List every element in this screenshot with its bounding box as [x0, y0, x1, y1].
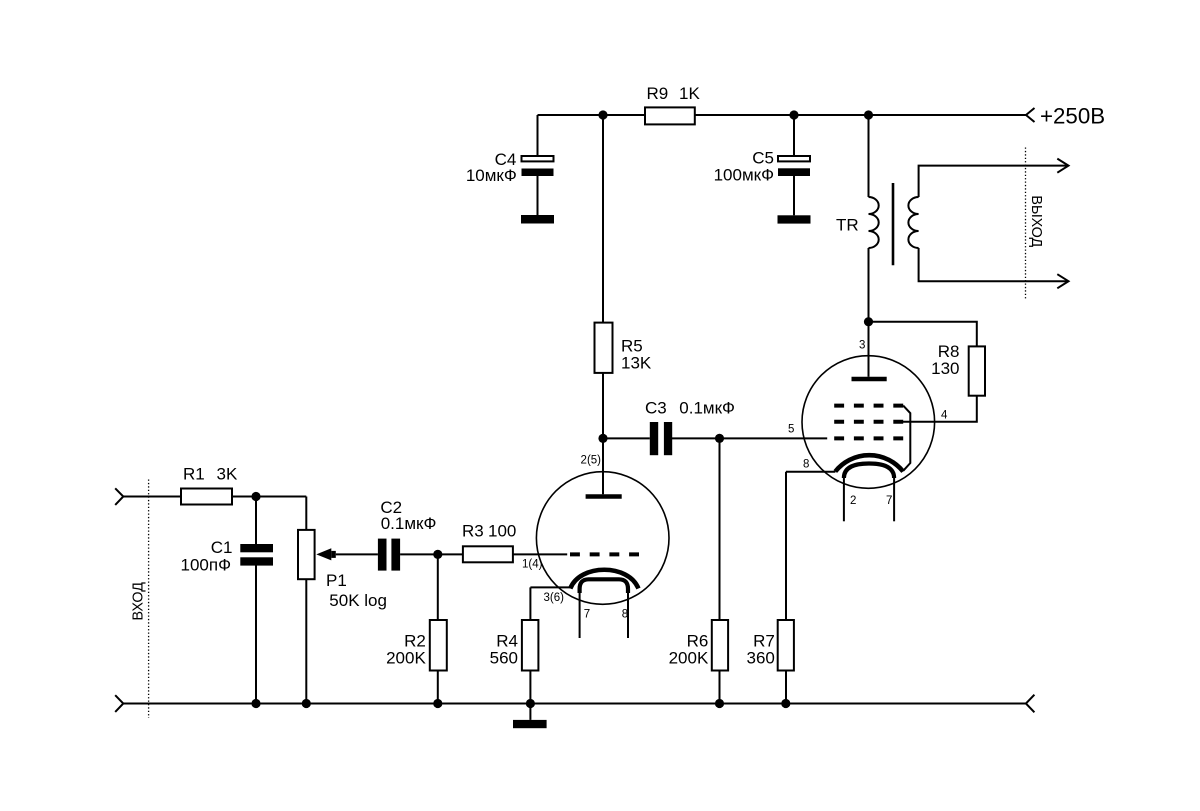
- node junction R1 / C1: [251, 492, 260, 501]
- svg-text:2: 2: [850, 495, 856, 507]
- node junction rail / C1: [251, 699, 260, 708]
- transformer TR core: [892, 183, 895, 265]
- wire beam plate connection: [903, 406, 910, 471]
- node input arrow top: [115, 488, 123, 505]
- resistor R1 label: [183, 465, 238, 484]
- tube U2 grid g1 row: [834, 436, 903, 440]
- resistor R7: [778, 620, 794, 671]
- node junction R5 / C3 / tube U1 anode: [598, 434, 607, 443]
- resistor R8 label: [931, 342, 959, 378]
- svg-text:50K log: 50K log: [329, 591, 387, 610]
- node junction rail / P1: [302, 699, 311, 708]
- wire TR primary top lead: [868, 115, 870, 197]
- resistor R5: [595, 323, 613, 373]
- node junction rail / R6: [715, 699, 724, 708]
- resistor R5 label: [621, 337, 652, 373]
- svg-text:R1: R1: [183, 465, 205, 484]
- resistor R7 label: [747, 632, 775, 668]
- capacitor C5: [778, 156, 810, 176]
- svg-text:8: 8: [622, 609, 628, 621]
- svg-text:360: 360: [747, 648, 775, 667]
- tube U1 cathode: [570, 570, 638, 589]
- tube U2 heater: [844, 464, 894, 479]
- svg-text:0.1мкФ: 0.1мкФ: [381, 514, 437, 533]
- node junction C2 / R2 / R3: [433, 550, 442, 559]
- svg-text:100: 100: [488, 522, 516, 541]
- resistor R9 label: [647, 84, 701, 103]
- svg-text:100пФ: 100пФ: [181, 555, 232, 574]
- wire bottom rail: [123, 703, 1026, 705]
- node junction rail / R4 / ground: [526, 699, 535, 708]
- resistor R4 label: [490, 632, 518, 668]
- resistor R8: [969, 346, 985, 395]
- svg-text:7: 7: [584, 609, 590, 621]
- wire C5 bottom lead: [793, 176, 795, 215]
- node output boundary dotted line: [1025, 148, 1027, 300]
- wire cathode pin 8 lead: [786, 471, 835, 473]
- wire heater pin 2 stub: [843, 476, 845, 522]
- capacitor C1: [240, 544, 273, 566]
- capacitor C2 label: [380, 498, 436, 533]
- wire heater pin 7 stub: [579, 591, 581, 638]
- wire heater pin 8 stub: [627, 591, 629, 638]
- tube U2 grid g2 row: [834, 420, 903, 424]
- node junction top rail / R5: [598, 110, 607, 119]
- wire C4 bottom lead: [537, 176, 539, 215]
- wire cathode U1 to R4: [529, 587, 531, 703]
- tube U2 envelope: [802, 356, 935, 489]
- tube U1 envelope: [536, 472, 669, 605]
- svg-text:+250В: +250В: [1040, 103, 1105, 128]
- node +250V terminal arrow: [1026, 108, 1035, 122]
- wire C4 top lead: [537, 115, 539, 156]
- ground chassis bar under C5: [778, 215, 811, 223]
- wire secondary top output: [919, 166, 1069, 197]
- node input boundary dotted line: [148, 480, 150, 719]
- resistor R1: [181, 489, 232, 505]
- tube U1 grid row: [570, 552, 639, 556]
- tube U2 cathode: [835, 455, 903, 471]
- capacitor C4 label: [466, 150, 517, 185]
- node junction top rail / TR primary: [864, 110, 873, 119]
- capacitor C5 label: [714, 148, 774, 184]
- resistor R2 label: [386, 632, 426, 668]
- wire wiper to C2: [336, 553, 378, 555]
- potentiometer P1 label: [326, 571, 387, 610]
- potentiometer P1 wiper arrow: [316, 548, 336, 560]
- node output arrow bottom: [1057, 274, 1068, 288]
- node junction rail / R2: [433, 699, 442, 708]
- ground chassis bar under C4: [521, 215, 554, 224]
- capacitor C1 label: [181, 538, 233, 574]
- svg-text:130: 130: [931, 359, 959, 378]
- svg-text:100мкФ: 100мкФ: [714, 165, 774, 184]
- tube U1 anode plate: [586, 494, 622, 499]
- wire secondary bottom output: [919, 248, 1069, 281]
- wire grid pin 5 lead: [720, 437, 828, 439]
- wire R7 branch: [785, 472, 787, 704]
- wire top supply rail: [538, 114, 1027, 116]
- svg-text:TR: TR: [836, 216, 859, 235]
- node junction C3 / R6 / pin5: [715, 434, 724, 443]
- wire C3 to node: [672, 437, 720, 439]
- wire grid pin 1(4) lead: [513, 553, 567, 555]
- transformer TR primary winding: [869, 197, 879, 248]
- tube U2 anode plate: [852, 377, 887, 382]
- resistor R3 label: [462, 522, 516, 541]
- wire R6 branch: [719, 438, 721, 703]
- ground symbol: [513, 704, 547, 729]
- capacitor C3 label: [645, 399, 735, 418]
- resistor R3: [463, 546, 513, 562]
- wire C1 bottom lead: [255, 565, 257, 703]
- wire tube U2 anode lead: [868, 322, 870, 377]
- wire R8 bottom lead to pin 4: [903, 396, 977, 422]
- potentiometer P1: [298, 530, 315, 579]
- svg-text:C3: C3: [645, 399, 667, 418]
- svg-text:P1: P1: [326, 571, 347, 590]
- tube U2 grid g3 row: [834, 404, 903, 408]
- svg-text:8: 8: [803, 459, 809, 471]
- svg-text:3: 3: [859, 339, 865, 351]
- resistor R9: [645, 107, 695, 124]
- capacitor C2: [378, 539, 400, 571]
- wire C2 to R3: [400, 553, 463, 555]
- wire anode U1 to C3: [603, 437, 650, 439]
- node junction rail / R7: [781, 699, 790, 708]
- node output arrow top: [1057, 159, 1068, 173]
- svg-text:7: 7: [886, 495, 892, 507]
- resistor R2: [430, 620, 447, 671]
- capacitor C4: [522, 156, 554, 176]
- tube U1 heater: [580, 579, 628, 593]
- wire cathode pin 3(6) lead: [530, 586, 570, 588]
- wire R2 branch: [437, 554, 439, 703]
- wire R8 top lead: [869, 322, 977, 347]
- wire R5 branch: [602, 115, 604, 438]
- svg-text:R3: R3: [462, 522, 484, 541]
- resistor R4: [522, 620, 539, 671]
- node bottom right terminal arrow: [1026, 695, 1035, 713]
- capacitor C3: [650, 422, 672, 455]
- svg-text:5: 5: [788, 424, 794, 436]
- wire tube U1 anode lead: [602, 438, 604, 494]
- svg-text:0.1мкФ: 0.1мкФ: [679, 399, 735, 418]
- node junction top rail / C5: [789, 110, 798, 119]
- svg-text:4: 4: [941, 409, 948, 421]
- svg-text:ВЫХОД: ВЫХОД: [1028, 195, 1044, 247]
- svg-text:560: 560: [490, 648, 518, 667]
- svg-text:10мкФ: 10мкФ: [466, 166, 517, 185]
- svg-text:3K: 3K: [217, 465, 238, 484]
- svg-text:13K: 13K: [621, 353, 652, 372]
- svg-text:ВХОД: ВХОД: [131, 582, 147, 621]
- svg-text:3(6): 3(6): [544, 592, 565, 604]
- wire TR primary bottom lead: [868, 248, 870, 322]
- wire input top: [123, 496, 306, 498]
- wire heater pin 7 stub: [893, 476, 895, 522]
- resistor R6: [712, 620, 728, 671]
- wire C1 top lead: [255, 497, 257, 545]
- node input arrow bottom: [115, 695, 123, 712]
- resistor R6 label: [669, 632, 709, 668]
- wire P1 bottom lead: [305, 579, 307, 703]
- svg-text:2(5): 2(5): [581, 455, 602, 467]
- transformer TR secondary winding: [908, 197, 918, 248]
- svg-text:200K: 200K: [669, 648, 709, 667]
- svg-text:1K: 1K: [679, 84, 700, 103]
- svg-text:1(4): 1(4): [522, 559, 543, 571]
- wire C5 top lead: [793, 115, 795, 155]
- svg-text:R9: R9: [647, 84, 669, 103]
- svg-text:200K: 200K: [386, 648, 426, 667]
- wire P1 top lead: [305, 497, 307, 530]
- node junction TR / tube anode / R8: [864, 317, 873, 326]
